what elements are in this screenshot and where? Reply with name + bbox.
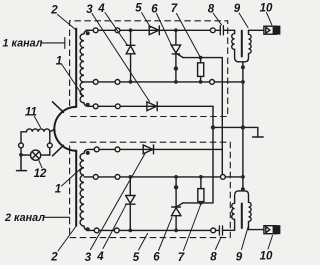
T1 bottom stub	[242, 62, 244, 68]
terminal circles ch2 middle	[93, 175, 98, 180]
transformer T2 core	[241, 204, 243, 229]
dot ch2 middle right	[241, 175, 245, 179]
head core channel 1	[75, 29, 77, 107]
vertical wire A (ch1 diode corner to ch2 gate)	[212, 106, 214, 203]
svg-text:1 канал: 1 канал	[3, 38, 43, 50]
diode VD5 vertical ch2	[126, 177, 135, 231]
diode VD1 on ch1 top wire	[149, 26, 159, 35]
dot ch1 middle right	[241, 80, 245, 84]
dot winding L2 bottom	[86, 227, 90, 231]
dot VS1 mid	[174, 80, 178, 84]
svg-text:9: 9	[236, 252, 243, 264]
connector X1	[264, 26, 281, 35]
leader 2 top	[58, 15, 76, 30]
leader 2 bottom	[58, 227, 76, 252]
connector X2	[264, 225, 281, 234]
dot T1 bottom	[241, 65, 245, 69]
leader lines	[35, 13, 273, 252]
head gap tick lower	[53, 145, 64, 156]
svg-text:5: 5	[133, 252, 140, 264]
svg-text:9: 9	[234, 3, 241, 15]
svg-text:4: 4	[96, 251, 104, 263]
wire ch2 middle	[84, 176, 243, 178]
resistor R1	[198, 63, 204, 77]
wire T2 to connector X2	[249, 229, 264, 231]
wire ch2 top	[88, 148, 222, 150]
svg-text:1: 1	[55, 184, 61, 196]
leader 3 top	[92, 14, 150, 102]
dot R1 top	[199, 56, 203, 60]
erase coil 11	[27, 129, 50, 132]
lamp left wire	[21, 154, 31, 156]
leader 1 kanal	[41, 38, 65, 49]
transformer T1 core	[241, 31, 243, 57]
wire C1 to T1	[223, 29, 234, 31]
dot ground bus right	[241, 125, 245, 129]
terminal circles coil 11	[19, 143, 24, 148]
gate wire ch2	[183, 202, 213, 204]
leader 1 ch1	[62, 64, 84, 96]
dot winding L2 top	[86, 151, 90, 155]
head pole arc	[54, 107, 76, 151]
leader 9 bottom	[242, 227, 249, 249]
wire ch1 top	[86, 29, 220, 31]
dot R2 top	[199, 175, 203, 179]
dot lamp left	[19, 153, 23, 157]
dashed box channel 1	[70, 21, 228, 117]
T2 top stub	[242, 189, 244, 191]
dot ground bus left	[211, 125, 215, 129]
transformer T2 right winding	[239, 191, 252, 230]
ground symbol left	[17, 155, 27, 171]
diode VD4 on ch2 top wire	[143, 145, 153, 154]
dot VS2 cathode lead	[174, 185, 178, 189]
svg-text:8: 8	[208, 4, 215, 16]
ground bus wire	[213, 126, 243, 128]
diode VD2 vertical ch1	[126, 30, 135, 82]
leader 10 bottom	[268, 236, 273, 250]
terminal circles ch1 top	[19, 28, 226, 233]
svg-text:7: 7	[171, 3, 178, 15]
vertical wire B (ch1 gate down to ch2 middle terminal)	[221, 58, 223, 175]
leader 9 top	[239, 13, 248, 28]
svg-text:6: 6	[151, 4, 158, 16]
dot VS2 top	[174, 175, 178, 179]
leader 1 ch2	[62, 168, 83, 187]
svg-text:6: 6	[153, 252, 160, 264]
transformer T1 right winding	[239, 30, 252, 62]
head core channel 2	[75, 151, 77, 226]
wire ch1 middle	[84, 81, 243, 83]
dot VS1 cathode lead	[174, 66, 178, 70]
coil 11 to head wire	[50, 129, 55, 132]
transformer T1 left winding	[232, 30, 239, 62]
capacitor C2	[219, 226, 222, 235]
wire T1 to connector X1	[249, 29, 264, 31]
svg-text:5: 5	[135, 3, 142, 15]
leader 2 kanal	[44, 216, 70, 218]
lamp right wire	[41, 154, 50, 156]
svg-text:7: 7	[178, 252, 185, 264]
dot VD2 bottom	[129, 80, 133, 84]
leader 7 bottom	[184, 205, 201, 251]
resistor R1 leads	[200, 58, 202, 82]
coil 11 right lead	[49, 132, 51, 155]
winding L1 bottom hook	[84, 103, 88, 107]
leader 8 top	[213, 13, 222, 25]
svg-text:12: 12	[34, 168, 47, 180]
leader 4 bottom	[103, 205, 126, 249]
thyristor VS1 ch1	[171, 30, 183, 82]
svg-text:2 канал: 2 канал	[4, 212, 45, 224]
wire C2 to T2	[223, 228, 235, 231]
leader 6 top	[157, 14, 172, 45]
terminal circles ch1 bottom	[93, 104, 98, 109]
vertical bus C (transformer returns)	[242, 67, 244, 189]
transformer T2 left winding	[232, 191, 239, 228]
head gap tick upper	[53, 102, 64, 113]
svg-text:1: 1	[56, 56, 62, 68]
terminal circles ch1 middle	[93, 80, 98, 85]
wire ch1 bottom	[88, 105, 213, 107]
winding L2 channel 2	[80, 153, 84, 226]
capacitor C1	[220, 26, 223, 35]
svg-text:10: 10	[260, 251, 273, 263]
winding L2 top hook	[84, 149, 88, 153]
svg-text:2: 2	[50, 5, 58, 17]
dot winding L1 top	[86, 31, 90, 35]
dot T2 top	[241, 187, 245, 191]
leader 4 top	[105, 13, 128, 46]
dot VD5 top	[128, 175, 132, 179]
winding L1 top hook	[84, 30, 88, 34]
dot winding L1 bottom	[86, 103, 90, 107]
winding L2 bottom hook	[84, 226, 88, 230]
leader 3 bottom	[91, 154, 146, 250]
svg-text:10: 10	[260, 3, 273, 15]
svg-text:3: 3	[85, 252, 92, 264]
leader 8 bottom	[216, 237, 222, 250]
resistor R2 leads	[200, 177, 202, 203]
thyristor VS2 ch2	[172, 177, 184, 231]
ground symbol right	[243, 127, 263, 137]
diode VD3 on ch1 bottom wire	[147, 102, 157, 111]
wire ch2 bottom	[88, 229, 219, 231]
dot VS2 anode	[174, 229, 178, 233]
dot R1 bottom	[199, 80, 203, 84]
coil 11 left lead	[21, 132, 27, 155]
dot R2 bottom	[199, 201, 203, 205]
svg-text:11: 11	[25, 107, 37, 119]
leader 11	[35, 117, 41, 128]
resistor R2	[198, 189, 204, 202]
dot VS1 anode	[174, 28, 178, 32]
lamp 12	[30, 150, 40, 160]
svg-text:3: 3	[86, 4, 93, 16]
leader 12	[39, 160, 42, 168]
leader 6 bottom	[159, 217, 173, 250]
terminal circles ch2 bottom	[94, 228, 99, 233]
winding L1 channel 1	[80, 34, 84, 103]
gate wire ch1	[183, 57, 222, 59]
svg-text:8: 8	[210, 252, 217, 264]
dashed box channel 2	[70, 142, 231, 237]
leader 5 bottom	[139, 234, 148, 251]
dot VD5 bottom	[128, 229, 132, 233]
terminal circles ch2 top	[94, 147, 99, 152]
leader 5 top	[142, 13, 151, 28]
svg-text:2: 2	[50, 252, 58, 264]
leader 10 top	[267, 13, 272, 25]
svg-text:4: 4	[97, 3, 105, 15]
dot VD2 top	[129, 28, 133, 32]
leader 7 top	[177, 14, 201, 57]
